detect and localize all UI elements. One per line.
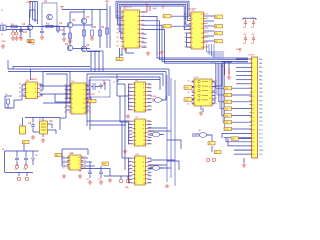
svg-text:D6: D6 bbox=[89, 111, 91, 113]
svg-text:PC3: PC3 bbox=[259, 138, 263, 140]
svg-text:D2: D2 bbox=[128, 140, 130, 142]
svg-text:P7: P7 bbox=[89, 98, 91, 100]
svg-text:C21: C21 bbox=[23, 169, 26, 171]
svg-text:R4: R4 bbox=[128, 124, 130, 126]
svg-text:D0: D0 bbox=[164, 16, 166, 18]
svg-text:C20: C20 bbox=[14, 169, 17, 171]
svg-text:F1: F1 bbox=[1, 10, 3, 12]
svg-text:PB3: PB3 bbox=[259, 104, 263, 106]
svg-text:R4: R4 bbox=[63, 167, 65, 169]
svg-text:D2: D2 bbox=[142, 11, 144, 13]
svg-text:PC4: PC4 bbox=[259, 142, 263, 144]
svg-text:D1: D1 bbox=[164, 26, 166, 28]
svg-text:D6: D6 bbox=[142, 16, 144, 18]
svg-text:24: 24 bbox=[252, 154, 254, 156]
svg-text:22p: 22p bbox=[49, 120, 54, 123]
svg-text:22: 22 bbox=[252, 146, 254, 148]
svg-text:PB5: PB5 bbox=[259, 113, 263, 115]
svg-text:PB4: PB4 bbox=[259, 109, 263, 111]
svg-text:D2: D2 bbox=[19, 88, 21, 90]
svg-text:PA7: PA7 bbox=[259, 87, 262, 90]
svg-text:PA1: PA1 bbox=[259, 62, 262, 65]
svg-text:8: 8 bbox=[252, 88, 253, 90]
svg-text:P10: P10 bbox=[225, 88, 228, 90]
svg-text:P7: P7 bbox=[63, 156, 65, 158]
svg-text:PB0: PB0 bbox=[259, 92, 263, 94]
svg-text:D2: D2 bbox=[206, 32, 208, 34]
svg-text:D6: D6 bbox=[148, 102, 150, 104]
svg-text:D2: D2 bbox=[148, 128, 150, 130]
svg-text:D6: D6 bbox=[206, 37, 208, 39]
svg-text:P7: P7 bbox=[117, 24, 119, 26]
svg-text:P15: P15 bbox=[225, 122, 228, 124]
svg-text:13: 13 bbox=[252, 109, 254, 111]
svg-text:PC2: PC2 bbox=[259, 133, 263, 135]
svg-text:C12: C12 bbox=[243, 34, 246, 36]
svg-text:D2: D2 bbox=[128, 83, 130, 85]
svg-text:VCC: VCC bbox=[157, 53, 162, 55]
svg-text:PC0: PC0 bbox=[259, 125, 263, 127]
svg-text:16: 16 bbox=[252, 121, 254, 123]
svg-text:PA3: PA3 bbox=[259, 70, 262, 73]
svg-text:A0: A0 bbox=[215, 16, 217, 19]
svg-text:D3: D3 bbox=[35, 155, 37, 157]
svg-text:D2: D2 bbox=[5, 94, 7, 96]
svg-text:R4: R4 bbox=[215, 80, 217, 82]
svg-text:D6: D6 bbox=[188, 92, 190, 94]
svg-text:P3: P3 bbox=[84, 156, 86, 158]
svg-text:18: 18 bbox=[252, 129, 254, 131]
svg-text:D2: D2 bbox=[148, 98, 150, 100]
svg-text:VCC: VCC bbox=[26, 2, 31, 4]
svg-text:P3: P3 bbox=[142, 28, 144, 30]
svg-text:P3: P3 bbox=[117, 11, 119, 13]
svg-text:17: 17 bbox=[252, 125, 254, 127]
svg-text:P3: P3 bbox=[148, 83, 150, 85]
svg-text:C12: C12 bbox=[251, 34, 254, 36]
svg-text:20: 20 bbox=[252, 138, 254, 140]
svg-text:12M: 12M bbox=[91, 94, 95, 96]
svg-text:R4: R4 bbox=[128, 102, 130, 104]
svg-text:PA6: PA6 bbox=[259, 83, 262, 86]
svg-text:A1: A1 bbox=[215, 25, 217, 28]
svg-text:R4: R4 bbox=[148, 106, 150, 108]
svg-text:PWR: PWR bbox=[1, 41, 6, 43]
svg-text:P7: P7 bbox=[148, 136, 150, 138]
svg-text:PA0: PA0 bbox=[259, 58, 262, 61]
svg-text:23: 23 bbox=[252, 150, 254, 152]
svg-text:P12: P12 bbox=[225, 102, 228, 104]
svg-text:AT89C51: AT89C51 bbox=[124, 6, 133, 9]
svg-text:PB1: PB1 bbox=[259, 96, 263, 98]
svg-text:D2: D2 bbox=[89, 102, 91, 104]
svg-text:5: 5 bbox=[252, 76, 253, 78]
svg-text:P3: P3 bbox=[63, 160, 65, 162]
svg-text:P7: P7 bbox=[185, 28, 187, 30]
svg-text:P7: P7 bbox=[128, 132, 130, 134]
svg-text:D6: D6 bbox=[185, 37, 187, 39]
svg-text:D6: D6 bbox=[128, 91, 130, 93]
svg-text:P7: P7 bbox=[40, 92, 42, 94]
svg-text:PB2: PB2 bbox=[259, 100, 263, 102]
svg-text:R4: R4 bbox=[117, 16, 119, 18]
svg-text:D2: D2 bbox=[206, 13, 208, 15]
svg-text:R4: R4 bbox=[128, 166, 130, 168]
svg-text:11: 11 bbox=[252, 100, 254, 102]
svg-text:~: ~ bbox=[6, 6, 7, 8]
svg-text:7406: 7406 bbox=[150, 131, 154, 133]
svg-text:P3: P3 bbox=[148, 124, 150, 126]
svg-text:CON1: CON1 bbox=[248, 55, 255, 57]
svg-text:T1: T1 bbox=[215, 152, 217, 154]
svg-text:A3: A3 bbox=[215, 40, 217, 43]
svg-text:P14: P14 bbox=[225, 115, 228, 117]
svg-text:74LS06: 74LS06 bbox=[150, 96, 157, 98]
svg-text:2: 2 bbox=[252, 63, 253, 65]
svg-text:PA4: PA4 bbox=[259, 75, 262, 78]
svg-text:C4: C4 bbox=[145, 3, 147, 5]
svg-text:PC5: PC5 bbox=[259, 146, 263, 148]
svg-text:P7: P7 bbox=[128, 109, 130, 111]
svg-text:D2: D2 bbox=[89, 84, 91, 86]
svg-text:D6: D6 bbox=[84, 160, 86, 162]
svg-text:104: 104 bbox=[243, 27, 246, 29]
svg-text:D2: D2 bbox=[188, 80, 190, 82]
svg-text:R4: R4 bbox=[19, 83, 21, 85]
svg-text:GND: GND bbox=[259, 150, 264, 152]
svg-text:21: 21 bbox=[252, 142, 254, 144]
svg-text:104: 104 bbox=[243, 43, 246, 45]
svg-text:104: 104 bbox=[251, 27, 254, 29]
svg-text:PB7: PB7 bbox=[259, 121, 263, 123]
svg-text:PA5: PA5 bbox=[259, 79, 262, 82]
svg-text:C15: C15 bbox=[221, 66, 224, 68]
svg-text:R4: R4 bbox=[117, 45, 119, 47]
svg-text:D6: D6 bbox=[148, 162, 150, 164]
svg-text:P7: P7 bbox=[215, 103, 217, 105]
svg-text:Q8: Q8 bbox=[198, 130, 201, 132]
svg-text:10: 10 bbox=[252, 96, 254, 98]
svg-text:P3: P3 bbox=[63, 164, 65, 166]
svg-text:PA2: PA2 bbox=[259, 66, 262, 69]
svg-text:T0: T0 bbox=[209, 143, 211, 145]
svg-text:R4: R4 bbox=[148, 157, 150, 159]
svg-text:B1: B1 bbox=[2, 149, 4, 151]
svg-text:P3: P3 bbox=[128, 128, 130, 130]
svg-text:3: 3 bbox=[252, 67, 253, 69]
svg-text:P3: P3 bbox=[148, 182, 150, 184]
svg-text:D2: D2 bbox=[19, 96, 21, 98]
svg-text:PC1: PC1 bbox=[259, 129, 263, 131]
svg-text:PB6: PB6 bbox=[259, 117, 263, 119]
svg-text:P11: P11 bbox=[225, 95, 228, 97]
svg-text:P3: P3 bbox=[40, 96, 42, 98]
svg-text:C5: C5 bbox=[144, 46, 146, 48]
svg-text:19: 19 bbox=[252, 133, 254, 135]
svg-text:VCC: VCC bbox=[236, 49, 241, 51]
svg-text:P3: P3 bbox=[89, 93, 91, 95]
svg-text:R4: R4 bbox=[128, 120, 130, 122]
svg-text:X2: X2 bbox=[113, 82, 115, 84]
svg-text:14: 14 bbox=[252, 113, 254, 115]
svg-text:A2: A2 bbox=[215, 32, 217, 35]
svg-text:D6: D6 bbox=[128, 136, 130, 138]
svg-text:1: 1 bbox=[252, 59, 253, 61]
svg-text:104: 104 bbox=[251, 43, 254, 45]
svg-text:D2: D2 bbox=[142, 37, 144, 39]
svg-text:103: 103 bbox=[23, 31, 28, 34]
svg-text:R4: R4 bbox=[65, 84, 67, 86]
svg-text:P16: P16 bbox=[225, 129, 228, 131]
svg-text:P3: P3 bbox=[148, 109, 150, 111]
svg-text:6: 6 bbox=[252, 80, 253, 82]
svg-text:D2: D2 bbox=[148, 178, 150, 180]
svg-text:7: 7 bbox=[252, 84, 253, 86]
svg-text:VCC: VCC bbox=[259, 154, 264, 156]
svg-text:P13: P13 bbox=[225, 109, 228, 111]
svg-text:P3: P3 bbox=[148, 143, 150, 145]
svg-text:R4: R4 bbox=[185, 23, 187, 25]
svg-text:9: 9 bbox=[252, 92, 253, 94]
svg-text:12: 12 bbox=[252, 104, 254, 106]
svg-text:MAX232: MAX232 bbox=[30, 78, 37, 81]
svg-text:D6: D6 bbox=[65, 102, 67, 104]
svg-text:X2: X2 bbox=[98, 92, 100, 94]
svg-text:4: 4 bbox=[252, 71, 253, 73]
svg-text:15: 15 bbox=[252, 117, 254, 119]
svg-text:C22: C22 bbox=[86, 179, 89, 181]
svg-text:P3: P3 bbox=[128, 162, 130, 164]
svg-text:74LS373: 74LS373 bbox=[188, 9, 197, 11]
svg-text:7406: 7406 bbox=[150, 165, 154, 167]
